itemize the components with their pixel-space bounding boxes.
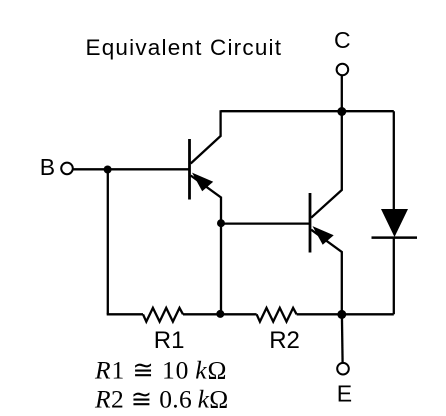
junction dot R1-R2 node [216, 310, 224, 318]
terminal circle C [337, 64, 349, 76]
svg-text:C: C [334, 27, 351, 53]
wire bottom bus right segment [297, 313, 394, 315]
transistor Q2 base bar [309, 193, 312, 253]
transistor Q2 emitter [311, 230, 342, 315]
svg-text:B: B [40, 154, 55, 180]
junction dot B node [104, 166, 112, 174]
wire E terminal vertical [341, 314, 344, 363]
diode D1 cathode wire [393, 238, 395, 315]
svg-text:R1 ≅ 10 kΩ: R1 ≅ 10 kΩ [94, 356, 227, 385]
transistor Q1 emitter [191, 176, 221, 315]
junction dot E node [337, 310, 346, 319]
terminal circle E [337, 363, 349, 375]
junction dot Q1 emitter / Q2 base [217, 219, 225, 227]
wire top bus [221, 110, 394, 112]
wire Q1 emitter to Q2 base [221, 222, 310, 224]
resistor R1 [143, 308, 183, 322]
wire C terminal vertical [341, 76, 343, 112]
wire B to Q1 base [74, 168, 190, 170]
svg-text:Equivalent Circuit: Equivalent Circuit [86, 35, 283, 60]
transistor Q2 collector [311, 111, 342, 218]
terminal circle B [61, 163, 73, 175]
diode D1 anode wire [393, 111, 395, 210]
diode D1 triangle [381, 209, 408, 237]
diode D1 cathode bar [372, 236, 418, 239]
resistor R2 [257, 308, 297, 322]
junction dot C node [337, 107, 346, 116]
wire left vertical B-junction down to bottom bus [107, 169, 109, 314]
wire bottom bus middle segment [183, 313, 257, 315]
transistor Q1 collector [191, 110, 221, 163]
transistor Q1 base bar [188, 139, 191, 200]
wire bottom bus left segment [107, 313, 143, 315]
svg-text:R2: R2 [269, 327, 300, 354]
svg-text:R2 ≅ 0.6 kΩ: R2 ≅ 0.6 kΩ [94, 385, 229, 414]
svg-text:R1: R1 [154, 327, 185, 354]
transistor Q2 emitter arrow [313, 226, 334, 245]
transistor Q1 emitter arrow [192, 173, 213, 192]
svg-text:E: E [337, 381, 352, 407]
